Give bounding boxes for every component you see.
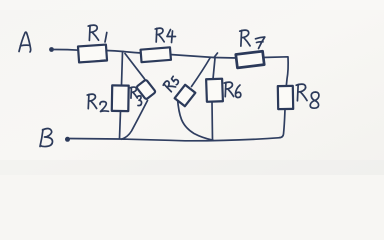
wire R1 to node 1 bbox=[107, 51, 124, 52]
wire node 1 to R4 bbox=[123, 52, 141, 54]
label R5 bbox=[163, 75, 180, 92]
resistor R6 body bbox=[206, 79, 223, 102]
label R3 bbox=[130, 87, 141, 105]
wire R8 bottom to bottom rail bbox=[279, 109, 285, 138]
wire node 2 to R7 bbox=[214, 57, 237, 60]
label R8 bbox=[296, 84, 319, 108]
resistor R1 body overdraw stroke bbox=[79, 60, 106, 63]
wire R5 bottom to rail bbox=[178, 99, 214, 141]
wire bottom rail B to R8 bbox=[68, 138, 281, 141]
resistor R5 body bbox=[175, 85, 196, 106]
label R6 bbox=[224, 82, 241, 97]
resistor R7 body bbox=[236, 51, 264, 68]
node A label bbox=[19, 32, 31, 52]
wire R7 to R8 top bbox=[262, 57, 288, 86]
label R1 bbox=[88, 25, 107, 42]
wire node 1 to R2 top bbox=[122, 52, 123, 85]
wire R6 bottom to rail bbox=[211, 102, 214, 141]
wire node 2 to R6 top bbox=[213, 58, 215, 79]
node B terminal dot bbox=[65, 137, 70, 142]
wire R3 bottom to rail bbox=[122, 101, 148, 140]
resistor R2 body bbox=[112, 85, 129, 111]
label R7 bbox=[240, 30, 265, 48]
resistor R1 body bbox=[78, 45, 107, 63]
resistor R3 body bbox=[136, 79, 156, 99]
node A terminal dot bbox=[49, 47, 54, 52]
label R4 bbox=[155, 28, 175, 42]
label R2 bbox=[87, 94, 108, 111]
node 2 junction overshoot tick bbox=[214, 53, 218, 58]
wire A to R1 bbox=[53, 48, 79, 51]
wire node 2 to R5 top bbox=[192, 58, 211, 87]
wire node 1 to R3 top bbox=[125, 54, 145, 79]
node B label bbox=[40, 129, 53, 147]
resistor R8 body bbox=[278, 86, 293, 109]
wire R2 bottom to rail bbox=[120, 111, 121, 139]
wire R4 to node 2 bbox=[170, 55, 214, 58]
resistor R4 body bbox=[141, 47, 171, 62]
